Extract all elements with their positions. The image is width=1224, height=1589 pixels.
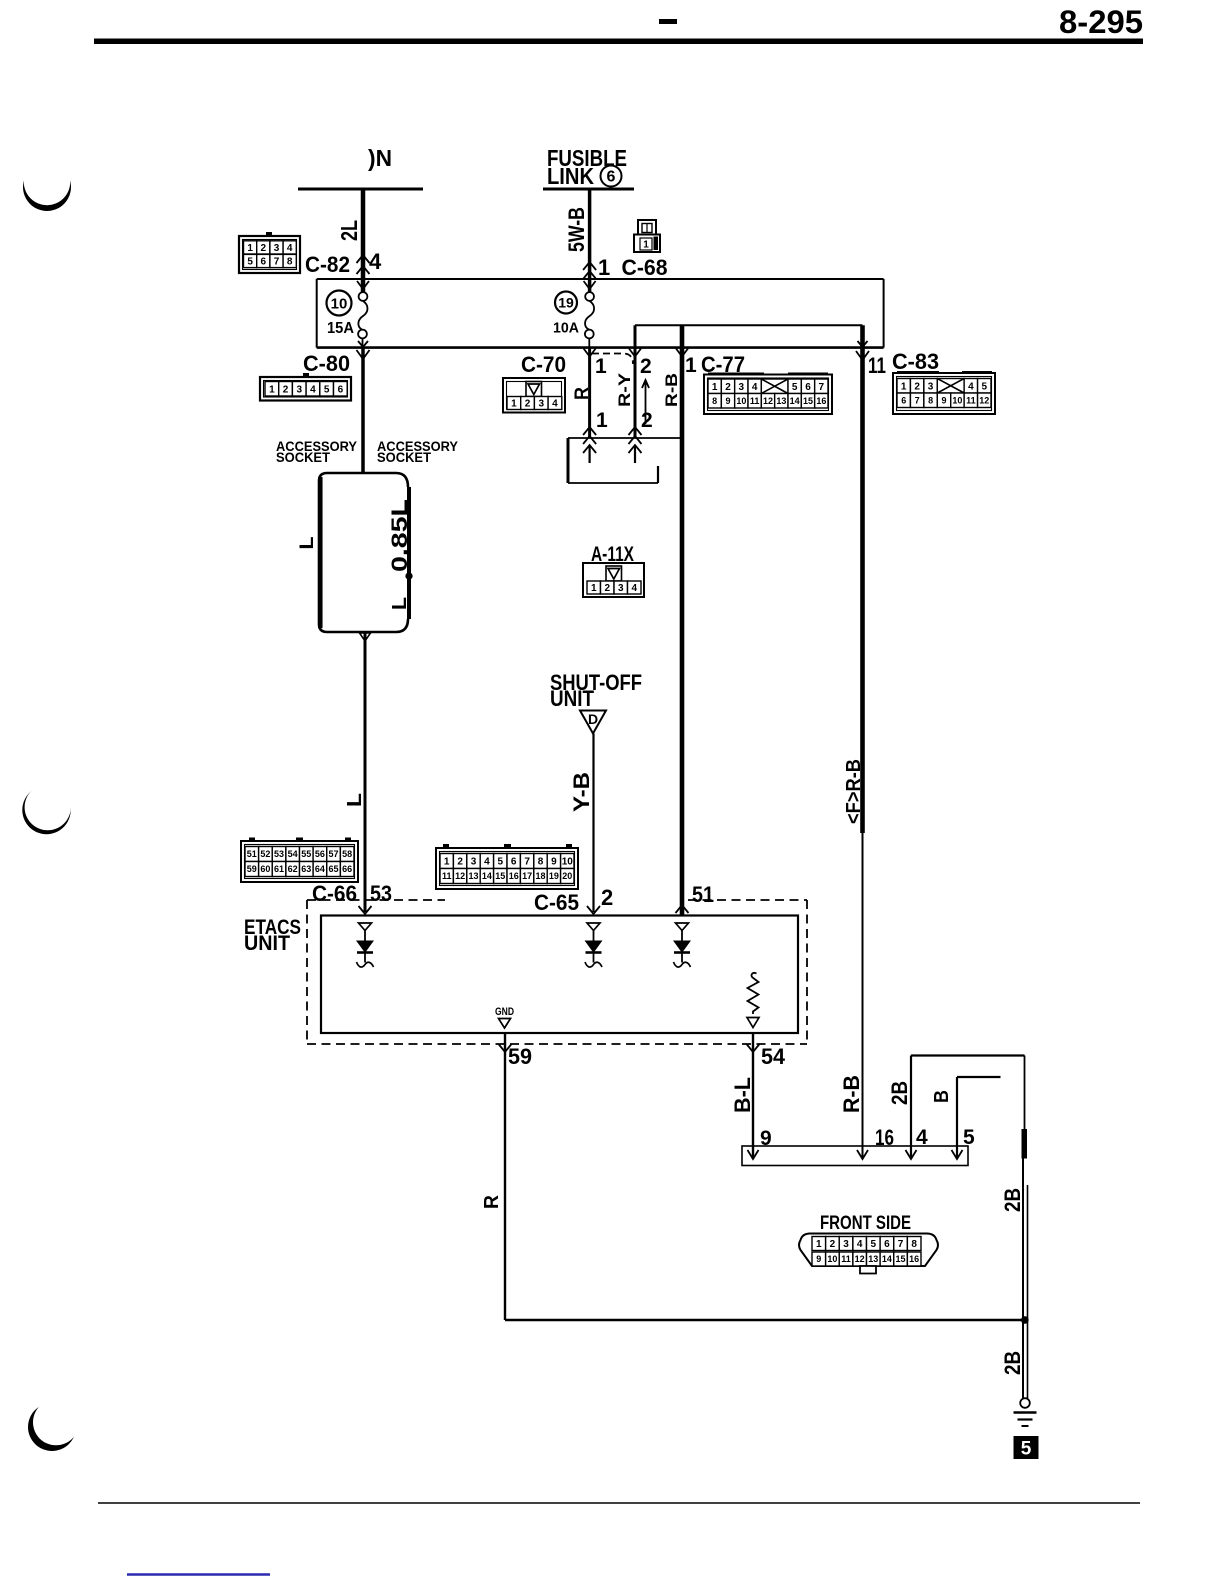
svg-text:1: 1 bbox=[816, 1239, 822, 1250]
svg-text:12: 12 bbox=[855, 1254, 865, 1264]
svg-text:9: 9 bbox=[941, 395, 946, 405]
svg-text:6: 6 bbox=[511, 857, 517, 868]
svg-text:4: 4 bbox=[310, 384, 316, 395]
svg-text:2: 2 bbox=[283, 384, 289, 395]
svg-text:13: 13 bbox=[776, 396, 786, 406]
svg-text:3: 3 bbox=[928, 381, 934, 392]
svg-text:UNIT: UNIT bbox=[550, 686, 594, 711]
svg-text:18: 18 bbox=[535, 871, 545, 881]
svg-text:LINK: LINK bbox=[547, 163, 594, 189]
svg-text:9: 9 bbox=[551, 857, 557, 868]
svg-text:11: 11 bbox=[966, 395, 976, 405]
svg-text:1: 1 bbox=[595, 355, 607, 378]
svg-text:51: 51 bbox=[692, 882, 714, 907]
svg-text:3: 3 bbox=[739, 382, 745, 393]
svg-text:7: 7 bbox=[524, 857, 530, 868]
svg-text:R: R bbox=[572, 387, 593, 400]
svg-text:4: 4 bbox=[631, 583, 637, 594]
svg-text:16: 16 bbox=[509, 871, 519, 881]
svg-text:8: 8 bbox=[928, 395, 933, 405]
svg-text:13: 13 bbox=[468, 871, 478, 881]
svg-text:R-B: R-B bbox=[662, 373, 681, 407]
svg-text:5: 5 bbox=[982, 381, 988, 392]
svg-text:15A: 15A bbox=[327, 320, 354, 337]
svg-text:15: 15 bbox=[803, 396, 813, 406]
svg-text:Y-B: Y-B bbox=[569, 772, 594, 812]
svg-text:10: 10 bbox=[331, 296, 348, 313]
svg-text:R: R bbox=[481, 1194, 503, 1209]
svg-text:C-83: C-83 bbox=[892, 349, 939, 374]
svg-text:7: 7 bbox=[915, 395, 920, 405]
svg-text:53: 53 bbox=[370, 881, 392, 906]
svg-text:1: 1 bbox=[643, 240, 649, 251]
svg-text:5W-B: 5W-B bbox=[564, 207, 589, 252]
svg-text:58: 58 bbox=[342, 849, 352, 859]
svg-text:8-295: 8-295 bbox=[1059, 4, 1143, 40]
svg-text:GND: GND bbox=[495, 1006, 514, 1018]
svg-text:1: 1 bbox=[591, 583, 597, 594]
svg-text:12: 12 bbox=[763, 396, 773, 406]
svg-text:6: 6 bbox=[261, 257, 267, 268]
svg-text:12: 12 bbox=[979, 395, 989, 405]
svg-text:L: L bbox=[389, 597, 411, 610]
svg-text:10: 10 bbox=[562, 857, 574, 868]
svg-text:8: 8 bbox=[287, 257, 293, 268]
svg-text:2: 2 bbox=[641, 409, 653, 432]
svg-text:15: 15 bbox=[495, 871, 505, 881]
svg-text:20: 20 bbox=[562, 871, 572, 881]
svg-text:8: 8 bbox=[538, 857, 544, 868]
svg-text:2B: 2B bbox=[1000, 1351, 1025, 1375]
svg-text:10A: 10A bbox=[553, 320, 579, 337]
svg-text:6: 6 bbox=[901, 395, 906, 405]
svg-text:C-68: C-68 bbox=[622, 255, 668, 280]
svg-text:57: 57 bbox=[329, 849, 339, 859]
svg-text:5: 5 bbox=[1021, 1439, 1032, 1460]
svg-text:1: 1 bbox=[444, 857, 450, 868]
svg-text:7: 7 bbox=[819, 382, 825, 393]
svg-text:2B: 2B bbox=[1000, 1188, 1025, 1212]
svg-text:D: D bbox=[588, 711, 598, 727]
svg-text:2: 2 bbox=[640, 355, 652, 378]
svg-text:6: 6 bbox=[805, 382, 811, 393]
svg-text:SOCKET: SOCKET bbox=[276, 450, 331, 465]
svg-text:10: 10 bbox=[827, 1254, 837, 1264]
svg-text:3: 3 bbox=[471, 857, 477, 868]
svg-text:4: 4 bbox=[552, 399, 558, 410]
svg-text:17: 17 bbox=[522, 871, 532, 881]
svg-text:6: 6 bbox=[884, 1239, 890, 1250]
svg-text:54: 54 bbox=[761, 1044, 786, 1069]
svg-text:14: 14 bbox=[882, 1254, 892, 1264]
svg-text:1: 1 bbox=[269, 384, 275, 395]
svg-text:19: 19 bbox=[558, 295, 574, 311]
svg-text:2: 2 bbox=[604, 583, 610, 594]
svg-text:5: 5 bbox=[498, 857, 504, 868]
svg-text:11: 11 bbox=[750, 396, 760, 406]
svg-text:1: 1 bbox=[511, 399, 517, 410]
svg-text:C-66: C-66 bbox=[312, 881, 357, 906]
svg-text:2: 2 bbox=[457, 857, 463, 868]
svg-text:59: 59 bbox=[508, 1044, 532, 1069]
svg-text:16: 16 bbox=[816, 396, 826, 406]
svg-text:54: 54 bbox=[288, 849, 298, 859]
svg-text:16: 16 bbox=[909, 1254, 919, 1264]
svg-text:3: 3 bbox=[274, 243, 280, 254]
svg-text:8: 8 bbox=[911, 1239, 917, 1250]
svg-text:61: 61 bbox=[274, 864, 284, 874]
svg-text:3: 3 bbox=[296, 384, 302, 395]
svg-text:10: 10 bbox=[736, 396, 746, 406]
svg-text:11: 11 bbox=[868, 353, 886, 378]
svg-text:64: 64 bbox=[315, 864, 325, 874]
svg-text:)N: )N bbox=[368, 145, 392, 171]
svg-text:5: 5 bbox=[871, 1239, 877, 1250]
svg-text:SOCKET: SOCKET bbox=[377, 450, 432, 465]
svg-text:1: 1 bbox=[247, 243, 253, 254]
svg-text:5: 5 bbox=[247, 257, 253, 268]
svg-text:1: 1 bbox=[596, 409, 608, 432]
svg-text:4: 4 bbox=[287, 243, 293, 254]
svg-text:6: 6 bbox=[338, 384, 344, 395]
svg-text:10: 10 bbox=[952, 395, 962, 405]
svg-text:4: 4 bbox=[484, 857, 490, 868]
svg-text:2: 2 bbox=[261, 243, 267, 254]
svg-text:56: 56 bbox=[315, 849, 325, 859]
svg-text:B: B bbox=[931, 1090, 953, 1103]
svg-text:5: 5 bbox=[324, 384, 330, 395]
svg-text:2: 2 bbox=[525, 399, 531, 410]
svg-text:4: 4 bbox=[968, 381, 974, 392]
svg-text:2: 2 bbox=[601, 885, 613, 910]
svg-text:6: 6 bbox=[607, 169, 616, 186]
svg-text:UNIT: UNIT bbox=[244, 932, 290, 955]
svg-text:4: 4 bbox=[369, 249, 382, 274]
svg-text:12: 12 bbox=[455, 871, 465, 881]
svg-text:7: 7 bbox=[274, 257, 280, 268]
svg-text:L: L bbox=[297, 536, 318, 549]
svg-text:59: 59 bbox=[247, 864, 257, 874]
svg-text:3: 3 bbox=[843, 1239, 849, 1250]
svg-text:8: 8 bbox=[712, 396, 717, 406]
svg-text:1: 1 bbox=[712, 382, 718, 393]
svg-text:13: 13 bbox=[868, 1254, 878, 1264]
svg-text:5: 5 bbox=[792, 382, 798, 393]
svg-text:51: 51 bbox=[247, 849, 257, 859]
svg-text:4: 4 bbox=[752, 382, 758, 393]
svg-text:9: 9 bbox=[816, 1254, 821, 1264]
svg-text:1: 1 bbox=[685, 354, 697, 377]
svg-text:65: 65 bbox=[329, 864, 339, 874]
svg-text:15: 15 bbox=[896, 1254, 906, 1264]
svg-text:11: 11 bbox=[442, 871, 452, 881]
svg-text:1: 1 bbox=[901, 381, 907, 392]
svg-text:63: 63 bbox=[301, 864, 311, 874]
svg-text:14: 14 bbox=[790, 396, 800, 406]
svg-text:2L: 2L bbox=[336, 220, 362, 241]
svg-text:L: L bbox=[344, 793, 366, 807]
svg-text:9: 9 bbox=[725, 396, 730, 406]
svg-text:3: 3 bbox=[538, 399, 544, 410]
svg-text:19: 19 bbox=[549, 871, 559, 881]
svg-text:7: 7 bbox=[898, 1239, 904, 1250]
svg-text:2: 2 bbox=[830, 1239, 836, 1250]
svg-text:0.85L: 0.85L bbox=[387, 499, 412, 572]
svg-text:55: 55 bbox=[301, 849, 311, 859]
svg-text:2: 2 bbox=[914, 381, 920, 392]
svg-text:B-L: B-L bbox=[730, 1077, 755, 1113]
svg-text:C-80: C-80 bbox=[303, 351, 350, 376]
svg-text:3: 3 bbox=[618, 583, 624, 594]
svg-text:1: 1 bbox=[598, 255, 610, 280]
svg-text:C-70: C-70 bbox=[521, 352, 566, 377]
svg-text:11: 11 bbox=[841, 1254, 851, 1264]
svg-text:C-82: C-82 bbox=[305, 252, 350, 277]
svg-text:60: 60 bbox=[260, 864, 270, 874]
svg-text:14: 14 bbox=[482, 871, 492, 881]
svg-text:FRONT SIDE: FRONT SIDE bbox=[820, 1213, 911, 1234]
svg-text:53: 53 bbox=[274, 849, 284, 859]
svg-text:2: 2 bbox=[725, 382, 731, 393]
svg-text:R-Y: R-Y bbox=[615, 372, 634, 407]
svg-text:52: 52 bbox=[260, 849, 270, 859]
svg-text:R-B: R-B bbox=[839, 1075, 864, 1113]
svg-text:C-65: C-65 bbox=[534, 890, 579, 915]
svg-text:66: 66 bbox=[342, 864, 352, 874]
svg-text:4: 4 bbox=[857, 1239, 863, 1250]
svg-text:62: 62 bbox=[288, 864, 298, 874]
svg-text:2B: 2B bbox=[887, 1081, 912, 1105]
svg-text:<F>R-B: <F>R-B bbox=[843, 759, 865, 824]
